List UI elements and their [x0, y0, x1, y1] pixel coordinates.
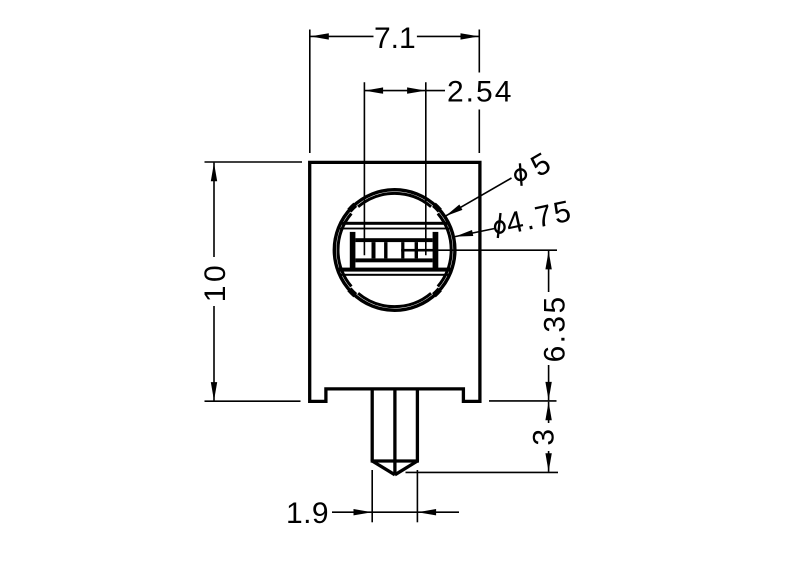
- dim 10 line upper part: [213, 163, 215, 257]
- dim 7.1 extension line right upper part: [478, 30, 480, 73]
- mid divider bar: [401, 249, 438, 252]
- svg-text:1.9: 1.9: [286, 497, 329, 530]
- leader phi5 arrowhead: [445, 205, 462, 217]
- svg-text:7.1: 7.1: [374, 22, 416, 55]
- dim 2.54 extension line right: [425, 82, 427, 255]
- LED holder body outline: [310, 162, 480, 401]
- dim 1.9 arrow pointing left: [418, 509, 437, 515]
- chord line A: [330, 222, 460, 225]
- inner lens circle phi4.75 (with 4 notch gaps): [358, 193, 431, 206]
- svg-text:3: 3: [528, 429, 561, 446]
- svg-text:10: 10: [199, 262, 232, 303]
- dim 10 arrow up: [211, 163, 217, 182]
- dim 3 extension line bottom: [406, 471, 559, 473]
- svg-text:6.35: 6.35: [539, 294, 572, 362]
- dim 2.54 extension line left: [363, 82, 365, 255]
- dim 7.1 extension line left: [309, 30, 311, 154]
- lead frame top rail: [355, 238, 432, 242]
- leader line phi5: [445, 178, 511, 216]
- pin tip V right: [395, 461, 418, 475]
- chord line B: [330, 228, 460, 230]
- center extension line: [438, 249, 557, 251]
- dim 1.9 extension line left: [371, 470, 373, 522]
- dim 6.35 line lower part: [548, 365, 550, 400]
- dim 7.1 arrow left: [310, 33, 329, 39]
- divider 4: [415, 242, 418, 258]
- leader line phi4.75: [455, 229, 494, 237]
- dim 6.35 arrow up: [545, 251, 551, 270]
- pin center line: [393, 389, 396, 474]
- dim 6.35 arrow down: [545, 382, 551, 401]
- lead frame bottom rail: [355, 258, 432, 262]
- pin right edge: [416, 389, 419, 461]
- chord line C: [330, 268, 460, 272]
- dim 7.1 extension line right lower part: [478, 110, 480, 154]
- dim 10 extension line top: [205, 161, 303, 163]
- dim 2.54 line: [364, 90, 445, 92]
- dim 2.54 arrow right: [407, 87, 426, 93]
- pin shoulder line: [371, 459, 419, 462]
- dim 10 extension line bottom: [205, 400, 301, 402]
- divider 1: [372, 242, 376, 258]
- dim 6.35 extension line bottom: [489, 400, 557, 402]
- dim 7.1 arrow right: [461, 33, 480, 39]
- dim 3 arrow up: [545, 402, 551, 421]
- divider 3: [401, 242, 404, 258]
- dim 6.35 line upper part: [548, 251, 550, 292]
- dim 7.1 line right part: [417, 35, 479, 37]
- pin tip V left: [372, 461, 395, 475]
- phi5 label: [515, 169, 526, 180]
- outer lens circle phi5: [334, 190, 455, 311]
- dim 1.9 line middle: [372, 511, 417, 513]
- phi4.75 label: [495, 221, 505, 232]
- lead frame right bar: [433, 232, 439, 269]
- lead frame left bar: [350, 232, 356, 269]
- chord line D: [330, 274, 460, 276]
- pin left edge: [371, 389, 374, 461]
- dim 1.9 arrow pointing right: [354, 509, 373, 515]
- dim 7.1 line left part: [310, 35, 373, 37]
- svg-text:2.54: 2.54: [447, 76, 513, 109]
- dim 3 line upper part: [548, 402, 550, 423]
- dim 1.9 line right tail: [417, 511, 459, 513]
- leader phi4.75 arrowhead: [455, 230, 473, 237]
- dim 10 arrow down: [211, 382, 217, 401]
- dim 3 arrow down: [545, 453, 551, 472]
- dim 10 line lower part: [213, 306, 215, 401]
- dim 1.9 line left tail: [332, 511, 372, 513]
- dim 2.54 arrow left: [365, 87, 384, 93]
- notch bumps at 45 degree positions: [349, 205, 355, 211]
- dim 3 line lower part: [548, 451, 550, 472]
- dim 1.9 extension line right: [416, 470, 418, 522]
- divider 2: [384, 242, 387, 258]
